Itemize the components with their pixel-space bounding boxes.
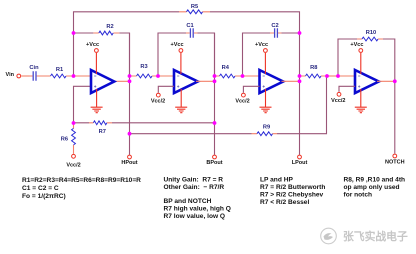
wire: R2 feedback row: [74, 33, 130, 76]
resistor R8: [306, 74, 322, 78]
svg-text:R8, R9 ,R10 and 4th: R8, R9 ,R10 and 4th: [344, 177, 406, 184]
power +Vcc of U3: [255, 42, 268, 74]
resistor R7: [93, 121, 106, 125]
svg-text:C1: C1: [186, 23, 193, 29]
svg-text:R10: R10: [366, 30, 376, 36]
node junction BP/R7: [213, 121, 217, 125]
wire: BP node vertical down to BPout: [214, 33, 216, 155]
node junction U4 inverting/R10: [336, 74, 340, 78]
wire: LP node vertical down to LPout: [299, 33, 301, 155]
svg-text:R7 = R/2 Butterworth: R7 = R/2 Butterworth: [260, 184, 325, 191]
svg-text:Cin: Cin: [29, 65, 39, 71]
svg-text:C2: C2: [271, 23, 278, 29]
wire: U3 output to LP node: [282, 80, 300, 82]
power Vcc/2 of U4: [331, 92, 345, 104]
ground of U2: [175, 89, 187, 113]
svg-text:op amp only used: op amp only used: [344, 184, 400, 191]
op-amp U4: [355, 70, 379, 93]
terminal HPout: [121, 155, 137, 166]
svg-text:Fo = 1/(2πRC): Fo = 1/(2πRC): [22, 193, 66, 200]
svg-text:C1 = C2 = C: C1 = C2 = C: [22, 185, 59, 192]
wire: R4 row U2 out to U3 inverting input: [215, 75, 260, 77]
note text block: notch usage: [344, 177, 406, 199]
power +Vcc of U2: [171, 42, 184, 74]
svg-text:Vcc/2: Vcc/2: [151, 99, 165, 105]
capacitor C2: [270, 28, 282, 38]
watermark logo icon: [321, 228, 337, 244]
wire: R10 feedback loop of U4: [338, 39, 395, 81]
svg-text:Vcc/2: Vcc/2: [66, 163, 80, 169]
wire: R3 row U1 out to U2 inverting input: [130, 75, 175, 77]
svg-text:BP and NOTCH: BP and NOTCH: [164, 198, 212, 205]
ground of U1: [91, 89, 103, 113]
node junction BP/R4: [213, 74, 217, 78]
resistor R5: [179, 10, 210, 14]
svg-text:R6: R6: [61, 136, 68, 142]
wire: NOTCH node vertical down to NOTCH terminal: [394, 81, 396, 153]
wire: U4 inverting node to R10/R8 joints: [327, 75, 338, 77]
wire: Vin to Cin: [21, 75, 29, 77]
power +Vcc of U1: [86, 42, 99, 74]
node junction LP/C2/R5: [298, 31, 302, 35]
wire: R8 row LP node to U4 inverting input: [300, 75, 356, 77]
wire: notch sum row from HP node through R9 to U4 input: [130, 76, 327, 134]
node junction HP/U1 out: [128, 79, 132, 83]
resistor R1: [45, 74, 74, 78]
node junction HP/notch wire: [128, 132, 132, 136]
svg-text:张飞实战电子: 张飞实战电子: [343, 229, 408, 243]
power +Vcc of U4: [350, 42, 363, 74]
svg-text:Other Gain: − R7/R: Other Gain: − R7/R: [164, 184, 225, 191]
wire: U4 noninverting input to Vcc/2: [339, 86, 355, 91]
svg-text:R4: R4: [222, 65, 230, 71]
node junction U3 inverting: [241, 74, 245, 78]
node junction LP/U3 out: [298, 79, 302, 83]
terminal LPout: [292, 155, 308, 166]
ground of U4: [355, 89, 367, 113]
wire: node A to U1 inverting input: [74, 75, 92, 77]
svg-text:R2: R2: [106, 24, 113, 30]
power Vcc/2 of U3: [235, 93, 249, 104]
note text block: gain notes: [164, 177, 231, 221]
svg-text:+Vcc: +Vcc: [86, 42, 99, 48]
svg-text:Vin: Vin: [6, 72, 15, 78]
wire: U1 output to HP node: [113, 80, 130, 82]
node junction U4 inverting/R9: [325, 74, 329, 78]
svg-text:Vcc/2: Vcc/2: [331, 98, 345, 104]
svg-text:LPout: LPout: [292, 160, 308, 166]
svg-text:R7 high value, high Q: R7 high value, high Q: [164, 206, 231, 213]
note text block: component equalities: [22, 177, 141, 200]
op-amp U1: [91, 70, 114, 93]
power Vcc/2 of U2: [151, 93, 165, 104]
node junction LP/R8: [298, 74, 302, 78]
wire: U3 noninverting input to Vcc/2: [243, 86, 259, 92]
svg-text:R1: R1: [56, 67, 63, 73]
resistor R9: [252, 132, 278, 136]
resistor R2: [93, 31, 119, 35]
capacitor C1: [186, 28, 198, 38]
wire: C1 integrator feedback row: [158, 33, 215, 76]
svg-text:R7 > R/2 Chebyshev: R7 > R/2 Chebyshev: [260, 192, 324, 199]
capacitor Cin: [30, 71, 46, 81]
node junction U2 inverting: [156, 74, 160, 78]
svg-text:+Vcc: +Vcc: [255, 42, 268, 48]
wire: top feedback bus from node A to LP node (R5 row): [74, 12, 300, 33]
svg-text:BPout: BPout: [206, 160, 222, 166]
terminal BPout: [206, 155, 222, 166]
wire: R7 row from R6/R7 node to BP node: [89, 122, 112, 124]
node junction HP/R3: [128, 74, 132, 78]
note text block: LP and HP tuning: [260, 177, 325, 207]
svg-text:+Vcc: +Vcc: [350, 42, 363, 48]
resistor R6: [72, 123, 76, 154]
node junction at A/R1: [72, 74, 76, 78]
terminal Vin: [17, 74, 21, 78]
wire: HP node vertical down to HPout: [129, 33, 131, 155]
svg-text:R1=R2=R3=R4=R5=R6=R8=R9=R10=R: R1=R2=R3=R4=R5=R6=R8=R9=R10=R: [22, 177, 141, 184]
wire: U4 output to NOTCH node: [377, 80, 395, 82]
wire: U1 inverting node vertical (node A): [73, 33, 75, 76]
op-amp U3: [260, 70, 284, 93]
svg-text:R5: R5: [191, 4, 198, 10]
svg-text:R7: R7: [99, 129, 106, 135]
wire: C2 integrator feedback row: [243, 33, 300, 76]
node junction BP/U2 out: [213, 79, 217, 83]
svg-text:+Vcc: +Vcc: [171, 42, 184, 48]
node junction NOTCH/U4 out: [393, 79, 397, 83]
svg-text:Vcc/2: Vcc/2: [235, 99, 249, 105]
wire: U2 noninverting input to Vcc/2: [158, 86, 174, 92]
wire: U1 noninverting input to R6/R7 node: [74, 86, 92, 123]
power Vcc/2 at R6: [66, 154, 80, 168]
svg-text:HPout: HPout: [121, 160, 137, 166]
node junction at A/R2: [72, 31, 76, 35]
ground of U3: [260, 89, 272, 113]
terminal NOTCH: [385, 154, 405, 165]
svg-text:R3: R3: [140, 64, 147, 70]
wire: U2 output to BP node: [196, 80, 215, 82]
svg-text:R9: R9: [263, 125, 270, 131]
resistor R3: [137, 74, 153, 78]
op-amp U2: [174, 70, 198, 93]
svg-text:NOTCH: NOTCH: [385, 159, 405, 165]
node junction R6/R7: [72, 121, 76, 125]
svg-text:R7 < R/2 Bessel: R7 < R/2 Bessel: [260, 199, 309, 206]
svg-text:R7 low value, low Q: R7 low value, low Q: [164, 213, 226, 220]
svg-text:Unity Gain: R7 = R: Unity Gain: R7 = R: [164, 177, 224, 184]
svg-text:for notch: for notch: [344, 192, 373, 199]
svg-text:R8: R8: [310, 65, 317, 71]
resistor R4: [220, 74, 236, 78]
resistor R10: [357, 37, 383, 41]
svg-text:LP and HP: LP and HP: [260, 177, 293, 184]
